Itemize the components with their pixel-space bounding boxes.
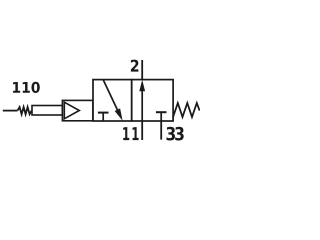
resistor-style zigzag (return spring, left) xyxy=(18,107,32,114)
blocked port T (left square) xyxy=(98,112,109,114)
port 2 line (top) xyxy=(141,60,143,80)
pilot triangle xyxy=(64,102,79,119)
flow arrow up (right square, 1 to 2) xyxy=(141,89,143,122)
label 2 (port) xyxy=(131,60,138,72)
valve body: left square (position b) xyxy=(93,80,132,121)
label 11 (port) xyxy=(123,127,138,140)
port 1 line (bottom left, 11) xyxy=(141,121,143,140)
label 110 xyxy=(13,82,40,93)
wire: left electrical lead xyxy=(3,110,18,112)
pilot box U (solenoid/pilot) xyxy=(62,100,93,120)
flow path diagonal with arrow (left square) xyxy=(103,80,121,117)
blocked port T (right square) xyxy=(156,111,167,113)
label 33 (port) xyxy=(167,127,184,141)
return spring (right) xyxy=(173,103,200,117)
port 3 line (bottom right, 33) xyxy=(160,121,162,140)
actuator stem (thin rectangle) xyxy=(32,106,62,116)
valve body: right square (position a) xyxy=(132,80,173,121)
